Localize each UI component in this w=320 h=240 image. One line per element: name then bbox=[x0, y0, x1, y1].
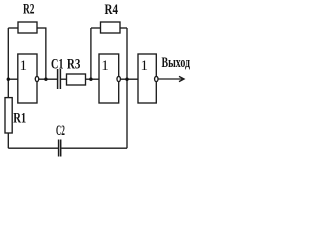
capacitor C1 bbox=[57, 69, 59, 89]
wire R1 bottom lead bbox=[7, 133, 9, 148]
svg-text:1: 1 bbox=[101, 58, 109, 74]
wire output arrow bbox=[158, 78, 184, 80]
wire bottom left segment bbox=[8, 147, 58, 149]
op-amp U3 gate 3 bbox=[138, 54, 156, 103]
wire bottom right segment bbox=[61, 147, 127, 149]
svg-text:1: 1 bbox=[140, 58, 148, 74]
wire R4 right lead bbox=[120, 27, 127, 29]
svg-text:R2: R2 bbox=[23, 2, 35, 18]
wire gate1 input bbox=[8, 78, 17, 80]
inverter bubble gate2 bbox=[117, 76, 120, 81]
svg-text:1: 1 bbox=[20, 58, 28, 74]
wire R2 left lead bbox=[8, 27, 18, 29]
svg-text:R1: R1 bbox=[13, 111, 26, 127]
wire R2 right lead bbox=[37, 27, 47, 29]
resistor R3 bbox=[67, 74, 86, 85]
inverter bubble gate1 bbox=[35, 76, 38, 81]
svg-text:R3: R3 bbox=[67, 57, 81, 73]
node junction dot gate2 output bbox=[125, 78, 128, 81]
op-amp U2 gate 2 bbox=[99, 54, 119, 103]
resistor R4 bbox=[101, 22, 121, 33]
svg-text:Выход: Выход bbox=[162, 55, 191, 71]
wire R4 right vertical down to bottom bbox=[126, 28, 128, 148]
op-amp U1 gate 1 bbox=[18, 54, 37, 103]
node junction dot gate2 input bbox=[89, 78, 92, 81]
wire C1 to R3 bbox=[61, 78, 67, 80]
wire R4 left lead bbox=[91, 27, 101, 29]
svg-text:R4: R4 bbox=[105, 2, 119, 18]
svg-text:C2: C2 bbox=[56, 123, 65, 139]
wire R2 feedback vertical bbox=[45, 28, 47, 79]
node junction dot gate1 output bbox=[44, 78, 47, 81]
resistor R2 bbox=[18, 22, 37, 33]
resistor R1 bbox=[5, 98, 12, 133]
wire R4 left vertical bbox=[90, 28, 92, 79]
wire gate1 output bbox=[39, 78, 57, 80]
wire R3 to gate2 bbox=[86, 78, 100, 80]
svg-text:C1: C1 bbox=[51, 57, 64, 73]
wire left vertical node A bbox=[7, 28, 9, 98]
node junction dot A bbox=[7, 78, 10, 81]
capacitor C2 bbox=[58, 140, 60, 157]
wire gate2 output bbox=[120, 78, 138, 80]
inverter bubble gate3 bbox=[155, 76, 158, 81]
